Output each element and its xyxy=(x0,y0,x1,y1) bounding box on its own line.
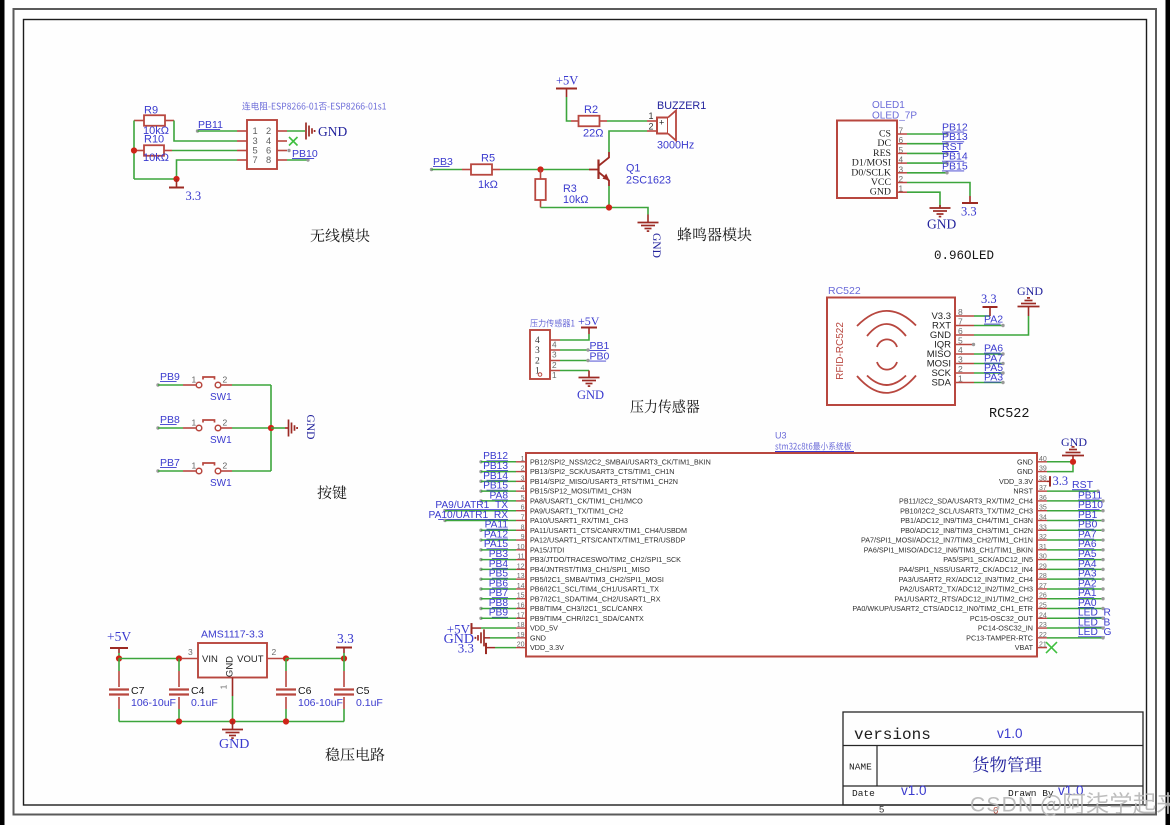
svg-text:22: 22 xyxy=(1039,632,1047,639)
resistor R9 xyxy=(134,120,144,122)
connector header text xyxy=(242,102,386,111)
svg-text:PB3/JTDO/TRACESWO/TIM2_CH2/SPI: PB3/JTDO/TRACESWO/TIM2_CH2/SPI1_SCK xyxy=(530,555,681,564)
svg-text:4: 4 xyxy=(552,340,557,350)
svg-text:NAME: NAME xyxy=(849,762,872,773)
ground GND (wireless pin2) xyxy=(305,123,307,140)
title block column divider xyxy=(876,746,878,787)
svg-text:PA10/USART1_RX/TIM1_CH3: PA10/USART1_RX/TIM1_CH3 xyxy=(530,516,628,525)
wire connector pin7 down to 3.3 node xyxy=(177,160,238,179)
CSDN watermark xyxy=(970,792,1170,817)
wire PB4 to MCU pin 12 xyxy=(481,568,516,570)
wire pin8 to PB10 xyxy=(287,159,308,161)
capacitor C6 xyxy=(285,659,287,672)
svg-text:GND: GND xyxy=(318,124,347,139)
svg-text:7: 7 xyxy=(521,514,525,521)
junction emitter/rail xyxy=(606,204,612,210)
wire pin3 to PB1 xyxy=(560,349,588,351)
wire pin4 to +5V xyxy=(560,334,589,340)
no connect X pin4 xyxy=(289,137,298,146)
svg-text:PA15/JTDI: PA15/JTDI xyxy=(530,545,564,554)
svg-text:2SC1623: 2SC1623 xyxy=(626,175,671,187)
svg-text:PB13/SPI2_SCK/USART3_CTS/TIM1_: PB13/SPI2_SCK/USART3_CTS/TIM1_CH1N xyxy=(530,467,674,476)
title block row divider 1 xyxy=(843,745,1143,747)
resistor R3 xyxy=(540,170,542,180)
ground GND (regulator) xyxy=(232,722,234,730)
svg-text:PA12/USART1_RTS/CANTX/TIM1_ETR: PA12/USART1_RTS/CANTX/TIM1_ETR/USBDP xyxy=(530,536,686,545)
svg-text:PB6/I2C1_SCL/TIM4_CH1/USART1_T: PB6/I2C1_SCL/TIM4_CH1/USART1_TX xyxy=(530,585,659,594)
svg-text:PB11/I2C2_SDA/USART3_RX/TIM2_C: PB11/I2C2_SDA/USART3_RX/TIM2_CH4 xyxy=(899,497,1033,506)
wire bottom rail to 3.3 node xyxy=(134,178,177,180)
wire PB7 to switch xyxy=(158,470,183,472)
svg-text:PB9/TIM4_CHR/I2C1_SDA/CANTX: PB9/TIM4_CHR/I2C1_SDA/CANTX xyxy=(530,614,644,623)
svg-text:39: 39 xyxy=(1039,466,1047,473)
ground GND (pressure) xyxy=(588,371,590,378)
svg-text:PA2/USART2_TX/ADC12_IN2/TIM2_C: PA2/USART2_TX/ADC12_IN2/TIM2_CH3 xyxy=(899,585,1033,594)
ground GND (buzzer) xyxy=(647,215,649,223)
svg-text:106-10uF: 106-10uF xyxy=(298,697,343,709)
svg-text:R5: R5 xyxy=(481,153,495,165)
svg-text:GND: GND xyxy=(927,217,956,232)
svg-text:12: 12 xyxy=(517,563,525,570)
svg-text:Q1: Q1 xyxy=(626,163,640,175)
svg-text:v1.0: v1.0 xyxy=(901,783,927,798)
svg-text:PB10/I2C2_SCL/USART3_TX/TIM2_C: PB10/I2C2_SCL/USART3_TX/TIM2_CH3 xyxy=(900,506,1033,515)
svg-text:C4: C4 xyxy=(191,685,205,697)
svg-text:32: 32 xyxy=(1039,534,1047,541)
wire D1/MOSI to PB14 xyxy=(907,162,947,164)
wire R2 to buzzer pin1 xyxy=(607,120,647,122)
svg-text:2: 2 xyxy=(266,126,271,136)
OLED pin stubs xyxy=(897,133,907,135)
svg-text:C7: C7 xyxy=(131,685,145,697)
ground GND (RC522) xyxy=(1028,307,1030,316)
transistor Q1 2SC1623 xyxy=(597,160,599,180)
svg-text:1: 1 xyxy=(649,111,654,121)
svg-text:1: 1 xyxy=(192,461,197,471)
wire PB9 to switch xyxy=(158,384,183,386)
svg-text:U3: U3 xyxy=(775,431,787,441)
svg-text:CSDN: CSDN xyxy=(970,794,1034,817)
wire PB7 to MCU pin 15 xyxy=(481,598,516,600)
wire SDA to PA3 xyxy=(974,382,1003,384)
svg-text:Date: Date xyxy=(852,788,875,799)
IQR open dot xyxy=(972,343,975,346)
svg-text:3.3: 3.3 xyxy=(186,189,202,203)
wire buzzer pin2 to Q1 collector xyxy=(609,131,647,152)
switch SW1 (PB7) xyxy=(183,470,196,472)
wire MCU pin 33 to PB0 xyxy=(1047,529,1103,531)
svg-text:16: 16 xyxy=(517,603,525,610)
MCU pin stubs left xyxy=(516,461,526,463)
wire MCU pin 22 to LED_G xyxy=(1047,637,1103,639)
svg-text:5: 5 xyxy=(879,805,884,816)
wire switch to bus xyxy=(232,427,271,429)
svg-text:19: 19 xyxy=(517,632,525,639)
wire pin2 to PB0 xyxy=(560,360,588,362)
wire PA12 to MCU pin 9 xyxy=(481,539,516,541)
svg-text:3.3: 3.3 xyxy=(961,205,977,219)
wire pin37 to RST xyxy=(1047,490,1098,492)
svg-text:PA1/USART2_RTS/ADC12_IN1/TIM2_: PA1/USART2_RTS/ADC12_IN1/TIM2_CH2 xyxy=(894,594,1033,603)
wire MCU pin 32 to PA7 xyxy=(1047,539,1103,541)
svg-text:15: 15 xyxy=(517,593,525,600)
wire PB14 to MCU pin 3 xyxy=(481,480,516,482)
svg-text:40: 40 xyxy=(1039,456,1047,463)
junction GND node xyxy=(1070,459,1076,465)
svg-text:106-10uF: 106-10uF xyxy=(131,697,176,709)
component RC522 box xyxy=(827,298,955,406)
title block row divider 2 xyxy=(843,785,1143,787)
wire top rail right xyxy=(286,658,344,660)
wire left vertical R9/R10 to bottom rail xyxy=(133,121,135,180)
junction +5V/C7 xyxy=(116,655,122,661)
svg-text:37: 37 xyxy=(1039,485,1047,492)
pin6 open dot xyxy=(287,149,290,152)
svg-text:13: 13 xyxy=(517,573,525,580)
svg-text:SDA: SDA xyxy=(931,378,951,389)
wire MCU pin 25 to PA0 xyxy=(1047,608,1103,610)
svg-text:3000Hz: 3000Hz xyxy=(657,140,694,152)
svg-text:+5V: +5V xyxy=(556,74,578,88)
wire RXT to PA2 xyxy=(974,325,1003,327)
wire MCU pin 29 to PA4 xyxy=(1047,568,1103,570)
svg-text:VDD_3.3V: VDD_3.3V xyxy=(999,477,1033,486)
svg-text:17: 17 xyxy=(517,612,525,619)
wire D0/SCLK to PB15 xyxy=(907,172,947,174)
svg-text:VDD_5V: VDD_5V xyxy=(530,624,558,633)
svg-text:PA0/WKUP/USART2_CTS/ADC12_IN0/: PA0/WKUP/USART2_CTS/ADC12_IN0/TIM2_CH1_E… xyxy=(852,604,1033,613)
wire PB3 to R5 xyxy=(432,169,463,171)
wire MCU pin 24 to LED_R xyxy=(1047,617,1103,619)
svg-text:4: 4 xyxy=(535,336,540,346)
svg-text:PB12/SPI2_NSS/I2C2_SMBAI/USART: PB12/SPI2_NSS/I2C2_SMBAI/USART3_CK/TIM1_… xyxy=(530,457,711,466)
pressure pin stubs xyxy=(550,339,560,341)
svg-text:GND: GND xyxy=(225,656,236,677)
pin1 indicator circle xyxy=(538,373,542,377)
svg-text:GND: GND xyxy=(219,737,249,752)
capacitor C5 xyxy=(343,659,345,672)
svg-text:14: 14 xyxy=(517,583,525,590)
svg-text:VDD_3.3V: VDD_3.3V xyxy=(530,643,564,652)
power port 3.3 (MCU pin38) xyxy=(1047,480,1049,482)
VOUT lead xyxy=(267,658,286,660)
svg-text:PB0/ADC12_IN8/TIM3_CH3/TIM1_CH: PB0/ADC12_IN8/TIM3_CH3/TIM1_CH2N xyxy=(900,526,1033,535)
svg-text:SW1: SW1 xyxy=(210,392,232,403)
wire MCU pin 26 to PA1 xyxy=(1047,598,1103,600)
wire MISO to PA6 xyxy=(974,353,1003,355)
svg-text:1kΩ: 1kΩ xyxy=(478,179,498,191)
junction node 3.3 xyxy=(173,176,179,182)
wire GND pin to GND xyxy=(974,316,1029,335)
junction 3.3 xyxy=(341,655,347,661)
svg-text:2: 2 xyxy=(272,647,277,657)
screenshot edge bar left xyxy=(0,0,5,825)
svg-text:+5V: +5V xyxy=(578,314,600,328)
MCU value stm32c8t6最小系统板 xyxy=(775,442,851,450)
switch SW1 (PB9) xyxy=(183,384,196,386)
capacitor C4 xyxy=(178,659,180,672)
svg-text:31: 31 xyxy=(1039,544,1047,551)
wire PB3 to MCU pin 11 xyxy=(481,559,516,561)
junction GND bottom xyxy=(229,718,235,724)
VIN lead xyxy=(181,658,198,660)
svg-text:23: 23 xyxy=(1039,622,1047,629)
svg-text:24: 24 xyxy=(1039,612,1047,619)
connector OLED1 box xyxy=(837,121,897,199)
wire PB6 to MCU pin 14 xyxy=(481,588,516,590)
svg-text:+5V: +5V xyxy=(107,629,131,644)
wire bus to GND xyxy=(271,427,285,429)
wire PA8 to MCU pin 5 xyxy=(481,500,516,502)
wire PB13 to MCU pin 2 xyxy=(481,471,516,473)
svg-text:GND: GND xyxy=(650,233,662,258)
svg-text:R10: R10 xyxy=(144,134,164,146)
svg-text:GND: GND xyxy=(870,187,891,198)
svg-text:SW1: SW1 xyxy=(210,478,232,489)
module label 稳压电路 xyxy=(325,747,384,761)
svg-text:28: 28 xyxy=(1039,573,1047,580)
svg-text:1: 1 xyxy=(253,126,258,136)
svg-text:20: 20 xyxy=(517,642,525,649)
junction C4 bottom xyxy=(176,718,182,724)
wire PB11 to pin1 xyxy=(198,130,238,132)
wire MOSI to PA7 xyxy=(974,363,1003,365)
svg-text:GND: GND xyxy=(304,415,316,440)
svg-text:10kΩ: 10kΩ xyxy=(563,194,588,206)
svg-text:v1.0: v1.0 xyxy=(1058,783,1084,798)
wire DC to PB13 xyxy=(907,143,947,145)
regulator GND pin down xyxy=(232,678,234,697)
wire MCU pin 34 to PB1 xyxy=(1047,519,1103,521)
wire MCU pin 30 to PA5 xyxy=(1047,559,1103,561)
svg-text:PB1/ADC12_IN9/TIM3_CH4/TIM1_CH: PB1/ADC12_IN9/TIM3_CH4/TIM1_CH3N xyxy=(900,516,1033,525)
ground GND (buttons) xyxy=(285,427,289,429)
svg-text:GND: GND xyxy=(1017,457,1033,466)
junction R10 left xyxy=(131,147,137,153)
buzzer pin stubs xyxy=(647,120,657,122)
module label 按键 xyxy=(318,485,347,499)
svg-text:PB7/I2C1_SDA/TIM4_CH2/USART1_R: PB7/I2C1_SDA/TIM4_CH2/USART1_RX xyxy=(530,594,661,603)
wire R5 to Q1 base xyxy=(500,169,589,171)
module label 压力传感器 xyxy=(631,399,700,413)
svg-text:PA6/SPI1_MISO/ADC12_IN6/TIM3_C: PA6/SPI1_MISO/ADC12_IN6/TIM3_CH1/TIM1_BK… xyxy=(864,545,1033,554)
svg-text:PA4/SPI1_NSS/USART2_CK/ADC12_I: PA4/SPI1_NSS/USART2_CK/ADC12_IN4 xyxy=(899,565,1033,574)
svg-text:C5: C5 xyxy=(356,685,370,697)
title block border xyxy=(843,712,1143,805)
regulator U AMS1117-3.3 xyxy=(198,643,267,678)
svg-text:1: 1 xyxy=(219,684,229,689)
RC522 pin stubs xyxy=(955,315,974,317)
wire GND pin down xyxy=(907,192,940,207)
svg-text:3: 3 xyxy=(521,475,525,482)
svg-text:18: 18 xyxy=(517,622,525,629)
wire RES to RST xyxy=(907,152,947,154)
svg-text:PC14-OSC32_IN: PC14-OSC32_IN xyxy=(978,624,1033,633)
svg-text:0.96OLED: 0.96OLED xyxy=(934,249,994,263)
svg-text:RFID-RC522: RFID-RC522 xyxy=(835,322,846,380)
wire PB9 to MCU pin 17 xyxy=(481,617,516,619)
svg-text:PA11/USART1_CTS/CANRX/TIM1_CH4: PA11/USART1_CTS/CANRX/TIM1_CH4/USBDM xyxy=(530,526,687,535)
wire MCU pin 36 to PB11 xyxy=(1047,500,1103,502)
svg-text:2: 2 xyxy=(223,375,228,385)
svg-text:+: + xyxy=(659,118,664,128)
wire switch to bus xyxy=(232,384,271,386)
MCU U3 body xyxy=(526,453,1037,657)
svg-text:R2: R2 xyxy=(584,104,598,116)
junction bus/GND xyxy=(268,425,274,431)
svg-text:36: 36 xyxy=(1039,495,1047,502)
pin stubs right 2/4/6/8 xyxy=(277,130,287,132)
svg-text:VBAT: VBAT xyxy=(1015,643,1034,652)
wire pin1 to GND xyxy=(560,370,589,372)
svg-text:2: 2 xyxy=(521,466,525,473)
svg-text:30: 30 xyxy=(1039,554,1047,561)
svg-text:22Ω: 22Ω xyxy=(583,128,603,140)
wire MCU pin 35 to PB10 xyxy=(1047,510,1103,512)
wire bottom rail xyxy=(119,721,344,723)
svg-text:PC15-OSC32_OUT: PC15-OSC32_OUT xyxy=(970,614,1034,623)
wire PA10/UATR1_RX to MCU pin 7 xyxy=(445,519,516,521)
svg-text:3.3: 3.3 xyxy=(981,292,997,306)
svg-text:5: 5 xyxy=(253,146,258,156)
svg-text:AMS1117-3.3: AMS1117-3.3 xyxy=(201,629,264,641)
wire +5V down to R2 xyxy=(567,97,572,121)
wire PB8 to switch xyxy=(158,427,183,429)
svg-text:0.1uF: 0.1uF xyxy=(191,697,218,709)
wire MCU pin 28 to PA3 xyxy=(1047,578,1103,580)
screenshot edge bar right xyxy=(1166,0,1170,825)
wire button bus vertical xyxy=(270,385,272,471)
svg-text:10kΩ: 10kΩ xyxy=(143,152,169,164)
svg-text:35: 35 xyxy=(1039,505,1047,512)
wire MCU pin 23 to LED_B xyxy=(1047,627,1103,629)
no connect X VBAT xyxy=(1046,642,1057,653)
svg-text:v1.0: v1.0 xyxy=(997,726,1023,741)
svg-text:3.3: 3.3 xyxy=(337,631,354,646)
power port +5V (pressure) xyxy=(588,328,590,335)
svg-text:PB14/SPI2_MISO/USART3_RTS/TIM1: PB14/SPI2_MISO/USART3_RTS/TIM1_CH2N xyxy=(530,477,678,486)
wire ground rail xyxy=(541,208,649,215)
svg-text:3.3: 3.3 xyxy=(458,641,474,656)
svg-text:11: 11 xyxy=(517,554,524,561)
junction C4 top xyxy=(176,655,182,661)
svg-text:GND: GND xyxy=(530,633,546,642)
svg-text:4: 4 xyxy=(266,136,271,146)
svg-text:PC13-TAMPER-RTC: PC13-TAMPER-RTC xyxy=(966,633,1033,642)
svg-text:1: 1 xyxy=(192,418,197,428)
svg-text:33: 33 xyxy=(1039,524,1047,531)
svg-text:2: 2 xyxy=(223,418,228,428)
wire pin39 to GND xyxy=(1047,462,1073,472)
connector box xyxy=(530,330,550,379)
buzzer BUZZER1 speaker symbol xyxy=(657,118,668,134)
svg-text:34: 34 xyxy=(1039,514,1047,521)
svg-text:1: 1 xyxy=(552,370,557,380)
svg-text:BUZZER1: BUZZER1 xyxy=(657,100,706,112)
svg-text:OLED1: OLED1 xyxy=(872,100,905,111)
power port 3.3 (wireless) xyxy=(176,179,178,188)
switch SW1 (PB8) xyxy=(183,427,196,429)
svg-text:PA7/SPI1_MOSI/ADC12_IN7/TIM3_C: PA7/SPI1_MOSI/ADC12_IN7/TIM3_CH2/TIM1_CH… xyxy=(861,536,1033,545)
wire MCU pin 31 to PA6 xyxy=(1047,549,1103,551)
junction C6 bottom xyxy=(283,718,289,724)
svg-text:3: 3 xyxy=(253,136,258,146)
svg-text:1: 1 xyxy=(521,456,525,463)
power port 3.3 (regulator) xyxy=(343,653,345,659)
svg-text:PB15/SP12_MOSI/TIM1_CH3N: PB15/SP12_MOSI/TIM1_CH3N xyxy=(530,487,631,496)
power port 3.3 (OLED) xyxy=(969,196,971,203)
wire R9 right to connector pin3 xyxy=(174,121,237,142)
wire MCU pin 27 to PA2 xyxy=(1047,588,1103,590)
svg-text:5: 5 xyxy=(521,495,525,502)
svg-text:38: 38 xyxy=(1039,475,1047,482)
wire PB8 to MCU pin 16 xyxy=(481,608,516,610)
wire switch to bus xyxy=(232,470,271,472)
MCU pin stubs right xyxy=(1037,461,1047,463)
junction base/R3 xyxy=(537,166,543,172)
wire PA9/UATR1_TX to MCU pin 6 xyxy=(445,510,516,512)
svg-text:versions: versions xyxy=(854,726,931,744)
svg-text:GND: GND xyxy=(1017,467,1033,476)
wire PA15 to MCU pin 10 xyxy=(481,549,516,551)
svg-text:2: 2 xyxy=(649,122,654,132)
svg-text:PB5/I2C1_SMBAI/TIM3_CH2/SPI1_M: PB5/I2C1_SMBAI/TIM3_CH2/SPI1_MOSI xyxy=(530,575,664,584)
svg-text:PB8/TIM4_CH3/I2C1_SCL/CANRX: PB8/TIM4_CH3/I2C1_SCL/CANRX xyxy=(530,604,643,613)
svg-text:6: 6 xyxy=(266,146,271,156)
wire pin40 to GND xyxy=(1047,461,1073,463)
svg-text:VIN: VIN xyxy=(202,654,218,665)
svg-text:R9: R9 xyxy=(144,105,158,117)
svg-text:PB4/JNTRST/TIM3_CH1/SPI1_MISO: PB4/JNTRST/TIM3_CH1/SPI1_MISO xyxy=(530,565,650,574)
wire SCK to PA5 xyxy=(974,372,1003,374)
wire PA11 to MCU pin 8 xyxy=(481,529,516,531)
svg-text:3: 3 xyxy=(535,346,540,356)
wire VCC to 3.3 xyxy=(907,183,970,197)
project name 货物管理 xyxy=(973,756,1042,772)
svg-text:C6: C6 xyxy=(298,685,312,697)
pin stubs left 1/3/5/7 xyxy=(237,130,247,132)
wire PB12 to MCU pin 1 xyxy=(481,461,516,463)
svg-text:SW1: SW1 xyxy=(210,435,232,446)
svg-text:27: 27 xyxy=(1039,583,1047,590)
svg-text:RC522: RC522 xyxy=(828,285,861,297)
svg-text:NRST: NRST xyxy=(1013,487,1033,496)
junction C6 top xyxy=(283,655,289,661)
svg-text:RC522: RC522 xyxy=(989,407,1030,422)
svg-text:PA5/SPI1_SCK/ADC12_IN5: PA5/SPI1_SCK/ADC12_IN5 xyxy=(943,555,1033,564)
svg-text:PA3/USART2_RX/ADC12_IN3/TIM2_C: PA3/USART2_RX/ADC12_IN3/TIM2_CH4 xyxy=(899,575,1033,584)
svg-text:9: 9 xyxy=(521,534,525,541)
svg-text:2: 2 xyxy=(223,461,228,471)
svg-text:0.1uF: 0.1uF xyxy=(356,697,383,709)
svg-text:PA9/USART1_TX/TIM1_CH2: PA9/USART1_TX/TIM1_CH2 xyxy=(530,506,623,515)
power port 3.3 (RC522) xyxy=(989,307,991,316)
module label 无线模块 xyxy=(311,228,370,242)
ground GND (OLED) xyxy=(939,205,941,208)
svg-text:26: 26 xyxy=(1039,593,1047,600)
wire top rail left xyxy=(119,658,181,660)
svg-text:GND: GND xyxy=(1017,284,1043,298)
svg-text:VOUT: VOUT xyxy=(237,654,264,665)
svg-text:29: 29 xyxy=(1039,563,1047,570)
svg-text:GND: GND xyxy=(577,388,604,402)
RFID antenna arcs xyxy=(857,311,916,393)
svg-text:6: 6 xyxy=(521,505,525,512)
connector header 压力传感器1 xyxy=(530,319,574,327)
wire Q1 emitter to ground rail xyxy=(608,186,610,208)
wire PB5 to MCU pin 13 xyxy=(481,578,516,580)
svg-text:7: 7 xyxy=(253,155,258,165)
